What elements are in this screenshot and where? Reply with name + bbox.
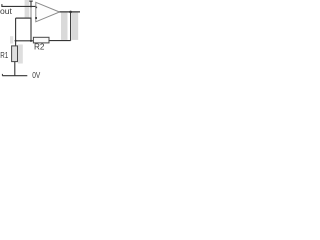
op-amp upper input mark (36, 7, 38, 9)
svg-text:R2: R2 (34, 42, 45, 51)
wire: vertical to R1 top (15, 18, 17, 46)
node: junction dot at x=31 on feedback row (30, 40, 32, 42)
svg-text:out: out (0, 6, 13, 16)
op-amp lower input mark (35, 17, 37, 19)
gray zone right side A (61, 13, 68, 40)
gray zone left of op-amp (25, 0, 30, 18)
resistor R2 box (33, 37, 49, 43)
gray zone right side B (72, 13, 78, 40)
node: tick at top of input vertical (29, 0, 33, 2)
node: 0V rail left tick (1, 74, 3, 76)
wire: output terminal tick top-left (1, 4, 3, 7)
wire: vertical input line x=31 upper (30, 1, 32, 8)
wire: feedback row right of R2 (49, 40, 71, 42)
node: junction at R1 column and feedback row (15, 40, 17, 42)
op-amp U1 triangle (36, 2, 60, 22)
wire: feedback row left of R2 (16, 40, 34, 42)
node: output junction dot (69, 11, 72, 14)
wire: vertical input line x=31 middle (faint) (30, 8, 32, 18)
wire: op-amp output (60, 11, 81, 13)
resistor R1 box (12, 46, 18, 62)
svg-text:R1: R1 (0, 51, 8, 60)
svg-text:0V: 0V (32, 71, 41, 80)
wire: feedback vertical drop x=70.6 (70, 12, 72, 41)
wire: lower-left horizontal y=18 (16, 17, 31, 19)
wire: vertical input line x=31 lower (30, 18, 32, 41)
wire: top wire to noninverting input (2, 5, 36, 7)
wire: 0V rail (2, 75, 27, 77)
gray zone left of R1 wire (10, 36, 13, 43)
wire: R1 bottom to 0V rail (14, 62, 16, 76)
gray zone right of R1 (18, 45, 23, 64)
